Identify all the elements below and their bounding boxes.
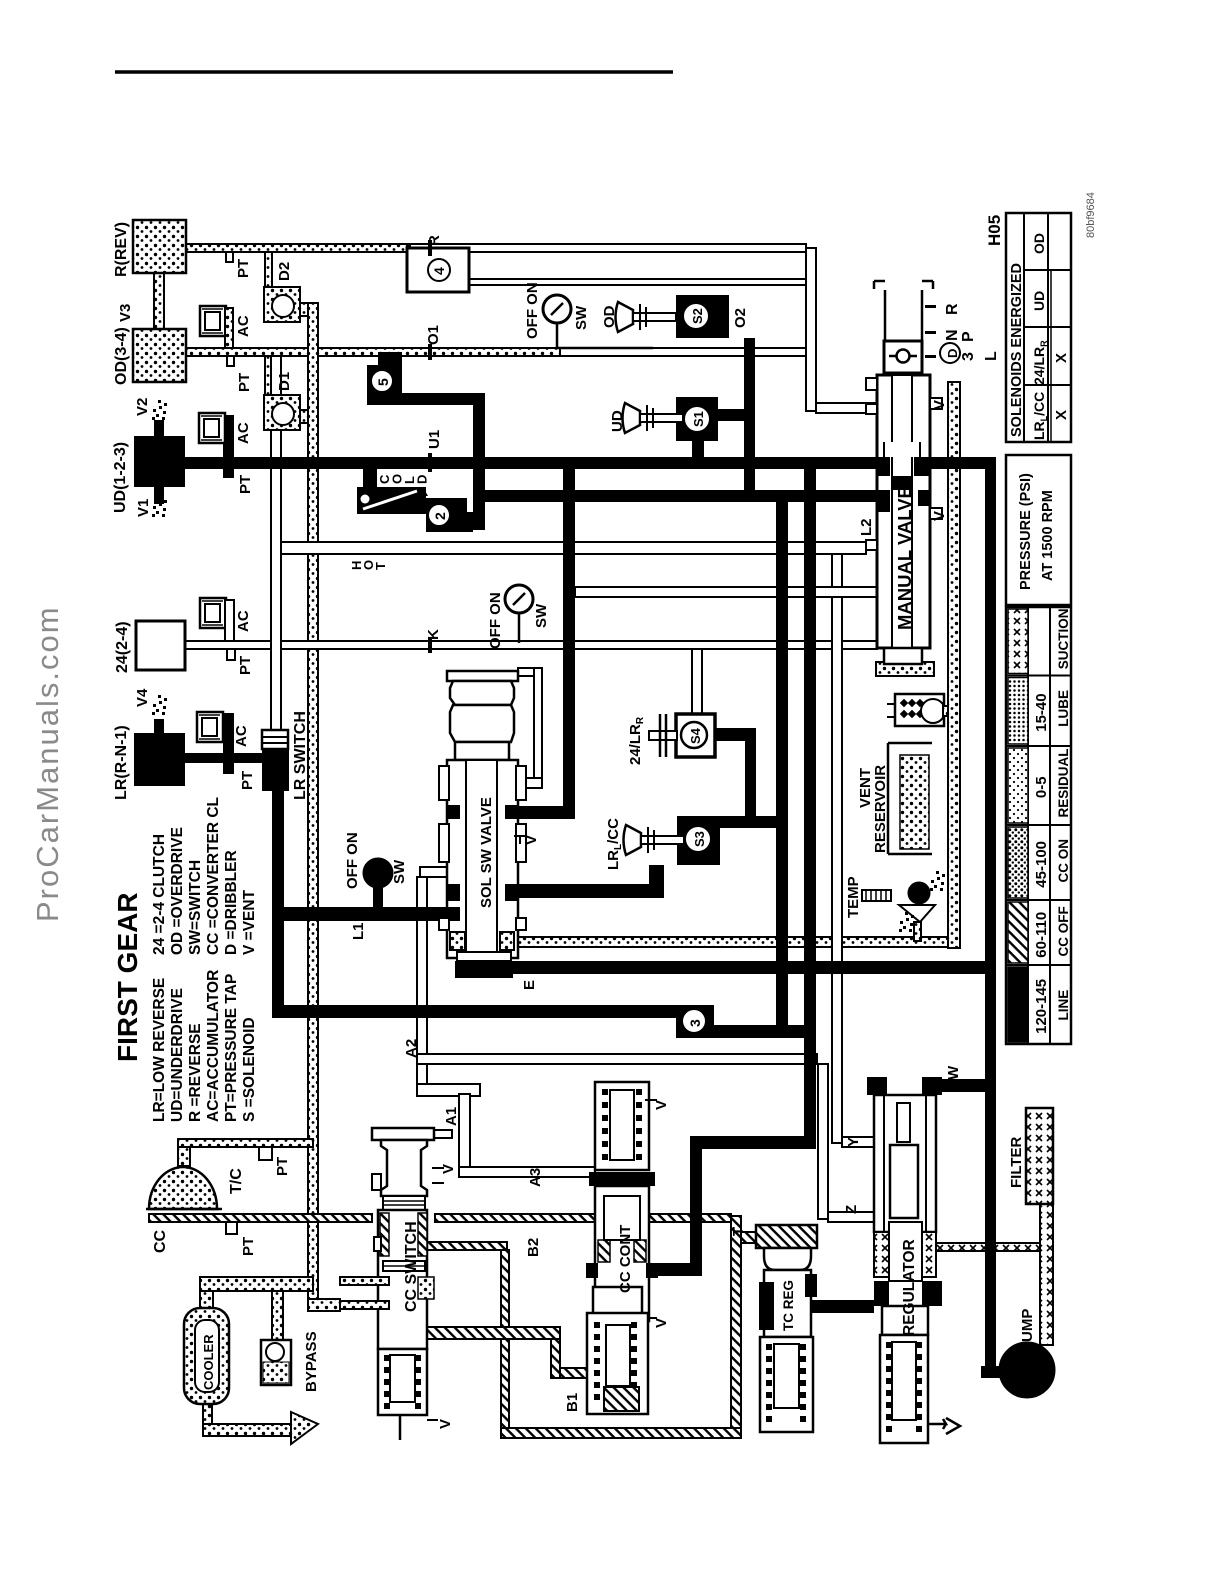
svg-text:U1: U1 xyxy=(426,430,443,449)
svg-text:2: 2 xyxy=(432,512,448,520)
svg-text:AC: AC xyxy=(235,422,252,444)
svg-text:OFF ON: OFF ON xyxy=(524,282,541,339)
svg-text:N: N xyxy=(944,329,961,341)
svg-text:O1: O1 xyxy=(425,325,442,345)
svg-text:SW=SWITCH: SW=SWITCH xyxy=(187,860,204,955)
svg-text:V: V xyxy=(931,511,948,521)
svg-text:5: 5 xyxy=(375,378,391,386)
svg-text:S2: S2 xyxy=(690,308,705,324)
svg-text:W: W xyxy=(945,1065,962,1080)
svg-text:D: D xyxy=(945,349,960,358)
svg-text:Y: Y xyxy=(845,1137,862,1147)
svg-text:45-100: 45-100 xyxy=(1033,841,1050,888)
svg-text:AC: AC xyxy=(235,315,252,337)
svg-text:3: 3 xyxy=(687,1019,703,1027)
svg-text:LR(R-N-1): LR(R-N-1) xyxy=(113,725,130,800)
svg-text:CC OFF: CC OFF xyxy=(1056,906,1071,956)
svg-text:P: P xyxy=(960,331,977,342)
svg-text:PRESSURE (PSI): PRESSURE (PSI) xyxy=(1018,473,1034,590)
svg-text:R =REVERSE: R =REVERSE xyxy=(187,1023,204,1122)
svg-text:V4: V4 xyxy=(134,688,151,707)
svg-text:ProCarManuals.com: ProCarManuals.com xyxy=(30,605,65,922)
svg-text:V: V xyxy=(653,1318,670,1328)
svg-text:TC REG: TC REG xyxy=(781,1280,796,1331)
svg-text:V: V xyxy=(653,1100,670,1110)
svg-text:X: X xyxy=(1053,353,1070,363)
svg-text:AC=ACCUMULATOR: AC=ACCUMULATOR xyxy=(205,970,222,1122)
svg-text:AC: AC xyxy=(235,610,252,632)
svg-text:24 =2-4 CLUTCH: 24 =2-4 CLUTCH xyxy=(151,834,168,955)
svg-text:CC ON: CC ON xyxy=(1056,839,1071,883)
svg-text:E: E xyxy=(521,980,538,990)
svg-text:80bf9684: 80bf9684 xyxy=(1085,192,1097,238)
svg-text:V2: V2 xyxy=(134,398,151,416)
svg-text:PT: PT xyxy=(239,771,256,790)
svg-text:T: T xyxy=(730,1227,747,1236)
svg-text:PT=PRESSURE TAP: PT=PRESSURE TAP xyxy=(223,974,240,1122)
svg-text:L1: L1 xyxy=(350,922,367,940)
svg-text:O2: O2 xyxy=(732,308,749,328)
svg-text:SW: SW xyxy=(391,859,408,884)
svg-text:OD: OD xyxy=(601,305,618,328)
svg-text:SW: SW xyxy=(573,305,590,330)
svg-text:LUBE: LUBE xyxy=(1056,690,1071,727)
svg-text:L2: L2 xyxy=(858,518,875,536)
svg-text:K: K xyxy=(425,629,442,640)
svg-text:LR SWITCH: LR SWITCH xyxy=(292,711,309,800)
svg-text:SOLENOIDS ENERGIZED: SOLENOIDS ENERGIZED xyxy=(1009,263,1025,437)
svg-text:A3: A3 xyxy=(527,1168,544,1187)
svg-text:B2: B2 xyxy=(525,1238,542,1257)
svg-text:MANUAL VALVE: MANUAL VALVE xyxy=(894,486,915,630)
svg-text:B1: B1 xyxy=(564,1393,581,1412)
svg-text:D =DRIBBLER: D =DRIBBLER xyxy=(223,850,240,955)
svg-text:PUMP: PUMP xyxy=(1019,1309,1036,1352)
svg-text:X: X xyxy=(1053,410,1070,420)
svg-text:AT 1500 RPM: AT 1500 RPM xyxy=(1040,490,1056,581)
svg-text:BYPASS: BYPASS xyxy=(303,1331,320,1392)
svg-text:SOL SW VALVE: SOL SW VALVE xyxy=(478,797,495,908)
svg-text:S =SOLENOID: S =SOLENOID xyxy=(241,1017,258,1122)
svg-text:D1: D1 xyxy=(276,372,293,391)
svg-text:L: L xyxy=(983,351,1000,361)
svg-text:LRL/CC: LRL/CC xyxy=(1031,392,1049,440)
svg-text:OFF ON: OFF ON xyxy=(344,832,361,889)
svg-text:PT: PT xyxy=(237,475,254,494)
svg-text:RESIDUAL: RESIDUAL xyxy=(1056,748,1071,817)
svg-text:S1: S1 xyxy=(691,411,706,427)
svg-text:SW: SW xyxy=(533,603,550,628)
svg-text:A1: A1 xyxy=(443,1107,460,1126)
svg-text:V =VENT: V =VENT xyxy=(241,889,258,955)
svg-text:S3: S3 xyxy=(692,831,707,847)
svg-text:24(2-4): 24(2-4) xyxy=(114,621,131,673)
svg-text:D: D xyxy=(415,475,430,484)
svg-text:PT: PT xyxy=(274,1157,291,1176)
svg-text:RESERVOIR: RESERVOIR xyxy=(872,765,889,853)
svg-text:SUCTION: SUCTION xyxy=(1056,609,1071,670)
svg-text:CC SWITCH: CC SWITCH xyxy=(403,1221,420,1312)
svg-text:LR=LOW REVERSE: LR=LOW REVERSE xyxy=(151,978,168,1122)
svg-text:T: T xyxy=(373,562,388,570)
svg-text:R: R xyxy=(944,303,961,315)
svg-text:V: V xyxy=(931,400,948,410)
svg-text:PT: PT xyxy=(235,259,252,278)
svg-text:OFF ON: OFF ON xyxy=(487,592,504,649)
svg-text:V: V xyxy=(437,1419,454,1429)
svg-text:FILTER: FILTER xyxy=(1008,1136,1025,1188)
svg-text:OD: OD xyxy=(1031,233,1047,254)
svg-text:OD(3-4): OD(3-4) xyxy=(113,327,130,385)
svg-text:UD=UNDERDRIVE: UD=UNDERDRIVE xyxy=(169,988,186,1122)
svg-text:AC: AC xyxy=(233,725,250,747)
svg-text:V1: V1 xyxy=(135,499,152,517)
svg-text:PT: PT xyxy=(237,656,254,675)
svg-text:0-5: 0-5 xyxy=(1033,776,1050,798)
svg-text:OD =OVERDRIVE: OD =OVERDRIVE xyxy=(169,827,186,955)
svg-text:CC CONT: CC CONT xyxy=(617,1225,634,1293)
svg-text:A2: A2 xyxy=(403,1039,420,1058)
svg-text:LINE: LINE xyxy=(1056,990,1071,1021)
svg-text:UD(1-2-3): UD(1-2-3) xyxy=(112,442,129,513)
svg-text:PT: PT xyxy=(240,1237,257,1256)
svg-text:UD: UD xyxy=(1031,291,1047,311)
svg-text:H05: H05 xyxy=(985,215,1004,246)
svg-text:FIRST GEAR: FIRST GEAR xyxy=(112,892,143,1062)
svg-text:LRL/CC: LRL/CC xyxy=(605,818,624,870)
svg-text:TEMP: TEMP xyxy=(845,876,862,918)
svg-text:4: 4 xyxy=(431,267,447,275)
svg-text:CC: CC xyxy=(152,1229,169,1253)
svg-text:CC =CONVERTER CL: CC =CONVERTER CL xyxy=(205,797,222,955)
svg-text:D2: D2 xyxy=(276,262,293,281)
svg-text:3: 3 xyxy=(960,352,977,361)
svg-text:60-110: 60-110 xyxy=(1033,912,1050,958)
svg-text:15-40: 15-40 xyxy=(1033,693,1050,731)
svg-text:V3: V3 xyxy=(117,304,134,322)
svg-text:PT: PT xyxy=(236,373,253,392)
svg-text:T/C: T/C xyxy=(228,1168,245,1194)
svg-text:COOLER: COOLER xyxy=(201,1334,216,1390)
svg-text:Z: Z xyxy=(843,1205,860,1214)
svg-text:UD: UD xyxy=(609,410,626,432)
svg-text:R(REV): R(REV) xyxy=(113,222,130,277)
svg-text:S4: S4 xyxy=(688,727,703,744)
svg-text:120-145: 120-145 xyxy=(1033,979,1050,1034)
svg-text:REGULATOR: REGULATOR xyxy=(901,1239,918,1336)
